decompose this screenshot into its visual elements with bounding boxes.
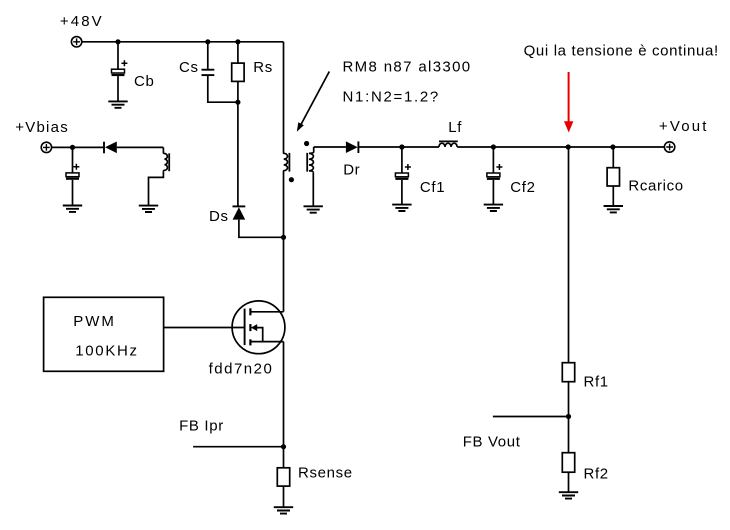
node FB Vout junction [566, 414, 571, 419]
wire Rf1 bottom to FB node [568, 382, 570, 453]
transformer T1 primary winding [284, 153, 288, 171]
wire Cf1 top [401, 147, 403, 173]
svg-text:Ds: Ds [209, 208, 229, 225]
resistor Rcarico [607, 168, 619, 186]
terminal +Vbias [41, 142, 51, 152]
svg-text:Rcarico: Rcarico [628, 177, 683, 194]
wire snubber to Ds cathode [237, 102, 239, 206]
svg-text:+48V: +48V [60, 13, 104, 30]
node Cf2-rail [491, 144, 496, 149]
wire Rcarico top [612, 147, 614, 168]
annotation arrow to transformer [297, 72, 330, 132]
node snubber bottom [235, 100, 240, 105]
wire feedback node down to Rf1 [568, 147, 570, 363]
transistor Q1 fdd7n20 [232, 301, 285, 354]
wire Rs top [237, 42, 239, 63]
transformer T1 secondary phase dot [304, 141, 309, 146]
transformer T1 secondary winding [309, 147, 314, 172]
svg-text:PWM: PWM [73, 313, 116, 330]
ground bias winding [139, 206, 158, 212]
inductor Lf [439, 143, 457, 147]
wire secondary top to Dr anode [314, 146, 346, 148]
capacitor Cf2 [487, 164, 503, 179]
svg-text:Cf2: Cf2 [510, 179, 535, 196]
ground Cf2 [484, 205, 503, 211]
wire Cf2 bottom [492, 180, 494, 205]
wire Cb bottom [117, 76, 119, 101]
svg-text:Rf2: Rf2 [584, 465, 609, 482]
diode Ds [233, 206, 246, 219]
wire secondary bottom to ground [312, 172, 314, 206]
svg-text:Rsense: Rsense [298, 465, 353, 482]
wire Rs bottom [237, 81, 239, 102]
svg-text:Cf1: Cf1 [420, 179, 445, 196]
wire Ds anode to drain [239, 220, 284, 238]
transformer T1 primary core bar [288, 153, 290, 172]
wire Cf1 bottom [401, 180, 403, 205]
svg-text:Cb: Cb [134, 73, 154, 90]
resistor Rf1 [562, 363, 574, 382]
svg-text:Cs: Cs [179, 59, 199, 76]
capacitor Cs [202, 70, 215, 75]
capacitor Cbias [66, 164, 79, 179]
annotation red arrow [564, 72, 573, 133]
svg-text:Rs: Rs [253, 59, 273, 76]
wire +Vbias to diode [52, 146, 104, 148]
diode Dr [346, 141, 359, 153]
ground secondary [304, 206, 323, 212]
wire Cb top [117, 42, 119, 69]
wire FB Ipr stub [193, 446, 283, 448]
wire Cbias top [72, 147, 74, 173]
node junction Cb-rail [115, 39, 120, 44]
capacitor Cf1 [395, 164, 411, 179]
node Cbias junction [70, 145, 75, 150]
wire +48V rail [82, 41, 283, 43]
node drain-Ds junction [281, 235, 286, 240]
svg-text:Dr: Dr [343, 162, 360, 179]
svg-text:Lf: Lf [448, 119, 462, 136]
node Cf1-rail [399, 144, 404, 149]
bias winding core bar [168, 153, 170, 171]
wire rail to Rcarico node [569, 146, 613, 148]
resistor Rsense [277, 468, 289, 486]
svg-text:FB Ipr: FB Ipr [179, 418, 224, 435]
transformer T1 primary phase dot [289, 177, 294, 182]
wire gate [164, 327, 245, 329]
wire bias winding to ground [149, 171, 164, 205]
terminal +Vout [664, 142, 674, 152]
resistor Rf2 [562, 453, 574, 473]
wire Cs bottom to snubber node [208, 76, 238, 102]
wire Rcarico node to +Vout [613, 146, 665, 148]
ground Cbias [63, 206, 82, 212]
wire diode to bias winding [117, 146, 164, 148]
resistor Rs [232, 63, 244, 81]
wire FB Vout stub [493, 416, 569, 418]
wire Cf2 top [492, 147, 494, 173]
capacitor Cb [112, 60, 128, 75]
node feedback branch on rail [566, 144, 571, 149]
wire Rsense bottom [283, 486, 285, 507]
svg-text:+Vout: +Vout [659, 118, 709, 135]
node junction Rs-rail [235, 39, 240, 44]
wire rail corner to primary top [283, 42, 285, 153]
wire Rf2 bottom [568, 472, 570, 492]
ground Cf1 [392, 205, 411, 211]
PWM box U1 [44, 297, 164, 371]
ground Rf2 [559, 492, 578, 498]
node junction Cs-rail [205, 39, 210, 44]
wire Cbias bottom [72, 180, 74, 206]
ground Rsense [274, 507, 293, 513]
terminal +48V [71, 37, 81, 47]
svg-text:Rf1: Rf1 [584, 373, 609, 390]
svg-text:+Vbias: +Vbias [15, 119, 69, 136]
node Rcarico-rail [610, 144, 615, 149]
wire Cs top [207, 42, 209, 69]
wire source to Rsense [283, 342, 285, 468]
svg-text:100KHz: 100KHz [75, 342, 139, 359]
svg-text:fdd7n20: fdd7n20 [209, 360, 274, 377]
wire Dr cathode to Cf1 node [358, 146, 439, 148]
ground Rcarico [604, 206, 623, 212]
diode Dbias [104, 142, 117, 154]
svg-text:N1:N2=1.2?: N1:N2=1.2? [343, 88, 440, 105]
transformer T1 secondary core bar [306, 153, 308, 172]
inductor bias winding [163, 147, 167, 171]
svg-text:Qui la tensione è continua!: Qui la tensione è continua! [524, 42, 719, 59]
svg-text:RM8 n87 al3300: RM8 n87 al3300 [343, 59, 472, 76]
node FB Ipr junction [281, 444, 286, 449]
wire Rcarico bottom [612, 186, 614, 206]
wire Lf to Cf2 node [457, 146, 568, 148]
svg-text:FB Vout: FB Vout [463, 433, 521, 450]
wire primary bottom to MOSFET drain [283, 171, 285, 312]
ground Cb [108, 101, 127, 107]
